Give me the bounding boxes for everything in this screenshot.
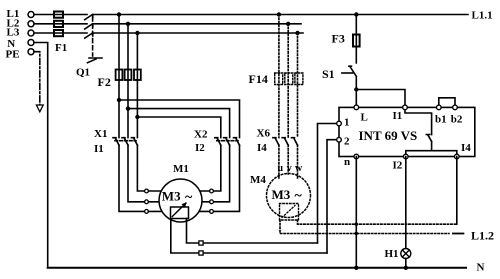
fuse F2 pole 3 [134, 70, 141, 81]
relay internal contact blade [426, 135, 431, 142]
svg-text:M3: M3 [272, 187, 291, 202]
wire X2 pole1 down to motor row1 right [213, 145, 221, 191]
wire X2 pole2 down to motor row2 right [213, 145, 229, 202]
node junction L2 tap dotted branch [286, 22, 290, 26]
sensor PTC box motor2 dotted [280, 204, 299, 221]
node junction branch B to X2 [126, 106, 130, 110]
relay internal wire contact to I2/I4 [406, 142, 457, 157]
svg-text:L1.2: L1.2 [471, 229, 494, 243]
wire L3 from terminal to Q1 [34, 32, 87, 34]
motor M4 circle dotted [267, 174, 311, 218]
relay internal wire I1 to contact [405, 107, 432, 134]
terminal circle PE [28, 49, 34, 55]
wire L3 after Q1 [93, 32, 303, 34]
wire L1 bus after Q1 to right [93, 14, 468, 16]
ground PE arrow [36, 105, 43, 112]
wire dotted v to motor2 [287, 145, 289, 174]
switch Q1 actuator [88, 58, 103, 63]
motor M1 terminal right row3 [210, 210, 214, 214]
svg-text:v: v [287, 163, 292, 174]
wire X2 pole3 down to motor row3 right [213, 145, 239, 211]
wire lamp to N bus [405, 259, 407, 268]
wire branch B to X2 column [128, 109, 230, 138]
switch Q1 linkage dashed [92, 17, 94, 56]
node junction L1/phase A drop [117, 12, 121, 16]
wire X1 pole2 down to motor row2 [128, 145, 145, 202]
motor M1 terminal left row2 [145, 200, 149, 204]
fuse F3 [353, 35, 360, 47]
fuse F14 pole 2 dotted [285, 73, 293, 85]
svg-text:X1: X1 [94, 128, 107, 140]
contactor X1 pole 3 [131, 138, 137, 146]
wire dotted u to motor2 [278, 145, 280, 178]
svg-text:M3: M3 [162, 189, 181, 204]
svg-text:PE: PE [6, 48, 20, 60]
terminal L on box [354, 105, 359, 110]
svg-text:I2: I2 [393, 159, 403, 171]
terminal I1 on box [403, 105, 408, 110]
svg-text:I1: I1 [393, 110, 403, 122]
wire sensor lead left down [171, 219, 327, 254]
motor M1 terminal left row1 [145, 189, 149, 193]
svg-text:H1: H1 [385, 248, 399, 260]
svg-text:u: u [278, 163, 284, 174]
sensor junction square upper [199, 241, 203, 245]
contactor X1 linkage [115, 140, 136, 142]
wire branch C to X2 column [137, 117, 220, 138]
wire dotted phase w down to K6 [297, 33, 299, 138]
svg-text:INT 69 VS: INT 69 VS [359, 128, 418, 143]
svg-text:F2: F2 [98, 75, 111, 89]
terminal n on box [354, 154, 359, 159]
node crossing dot n/sensor2 upper [355, 223, 358, 226]
wire sensor to terminal 1 [318, 124, 337, 244]
svg-text:~: ~ [295, 189, 303, 204]
wire S1 to node [355, 77, 357, 90]
node junction lamp on N bus [404, 266, 408, 270]
fuse F2 pole 2 [125, 70, 132, 81]
contactor X2 linkage [217, 140, 238, 142]
lamp H1 cross [402, 250, 409, 257]
svg-text:n: n [344, 156, 350, 168]
wire node to I1 terminal [356, 90, 405, 106]
sensor junction square lower [199, 251, 203, 255]
wire L1 from terminal to Q1 [34, 14, 87, 16]
terminal circle N [28, 40, 34, 46]
fuse F1 pole 3 [54, 30, 63, 36]
wire L2 after Q1 [93, 23, 301, 25]
switch Q1 pole 3 blade [85, 33, 93, 38]
switch Q1 pole 1 blade [85, 15, 93, 20]
fuse F2 pole 1 [116, 70, 123, 81]
svg-text:F14: F14 [249, 72, 268, 86]
terminal I4 on box [455, 154, 460, 159]
wire I4 down to dotted line [456, 157, 458, 225]
svg-text:N: N [477, 262, 485, 274]
terminal circle L3 [28, 30, 34, 36]
wire phase B vertical to X1 [127, 24, 129, 138]
svg-text:I4: I4 [461, 142, 471, 154]
terminal b2 on box [453, 105, 458, 110]
wire dotted phase v down to K6 [287, 24, 289, 138]
sensor arrow motor2 dotted [282, 206, 295, 218]
svg-text:Q1: Q1 [76, 67, 90, 79]
svg-text:M1: M1 [173, 163, 189, 175]
node junction L3 tap dotted branch [295, 31, 299, 35]
svg-text:X6: X6 [257, 127, 271, 139]
contactor K6 pole 3 dotted [292, 138, 298, 146]
node junction branch A to X2 [117, 98, 121, 102]
wire dotted phase u down to K6 [278, 15, 280, 138]
svg-text:b2: b2 [451, 113, 463, 125]
wire sensor lead right down [187, 219, 318, 244]
node junction L1 to F3 [354, 12, 358, 16]
relay module INT69VS box [339, 107, 475, 156]
terminal I2 on box [404, 154, 409, 159]
svg-text:b1: b1 [435, 113, 447, 125]
node junction n on N bus [354, 266, 358, 270]
wire n to neutral bus [355, 157, 357, 268]
wire dotted sensor2 right lead to I4 [298, 220, 457, 224]
svg-text:L3: L3 [7, 27, 20, 39]
sensor PTC arrow motor1 [172, 203, 186, 216]
terminal 1 on box [337, 121, 342, 126]
wire N bottom bus [48, 267, 466, 269]
contactor X2 pole 2 [224, 138, 230, 146]
wire dotted sensor2 left lead to L1.2 [280, 220, 449, 234]
wire PE dash-dot down [34, 52, 40, 105]
node junction branch C to X2 [135, 115, 139, 119]
svg-text:I2: I2 [195, 142, 205, 154]
node junction L1 tap dotted branch [277, 12, 281, 16]
node junction S1 output [354, 87, 358, 91]
wire L1 down to F3 [355, 15, 357, 63]
wire phase C vertical to X1 [136, 33, 138, 138]
wire branch A to X2 column [119, 100, 240, 138]
terminal 2 on box [337, 137, 342, 142]
node junction L3/phase C drop [135, 31, 139, 35]
fuse F1 pole 2 [54, 21, 63, 27]
svg-text:2: 2 [344, 135, 350, 147]
motor M1 terminal right row2 [210, 200, 214, 204]
jumper bridge b1-b2 [439, 98, 455, 108]
contactor K6 pole 2 dotted [282, 138, 288, 146]
svg-text:L: L [361, 112, 368, 124]
wire node to L terminal [355, 90, 357, 106]
wire motor right leads [199, 191, 210, 211]
contactor X2 pole 1 [215, 138, 221, 146]
motor M1 terminal right row1 [210, 189, 214, 193]
contactor K6 pole 1 dotted [273, 138, 279, 146]
terminal b1 on box [437, 105, 442, 110]
motor M1 terminal left row3 [145, 210, 149, 214]
terminal circle L2 [28, 21, 34, 27]
wire motor left leads [148, 191, 162, 211]
switch Q1 pole 2 blade [85, 24, 93, 29]
lamp H1 [401, 249, 411, 259]
node junction L2/phase B drop [126, 22, 130, 26]
sensor PTC box motor1 [171, 207, 189, 219]
terminal circle L1 [28, 12, 34, 18]
node crossing dot n/sensor2 lower [355, 232, 358, 235]
wire X1 pole1 down and to motor row3 [119, 145, 145, 211]
switch S1 blade [349, 66, 356, 76]
svg-text:I4: I4 [257, 142, 267, 154]
svg-text:M4: M4 [250, 174, 266, 186]
svg-text:1: 1 [344, 117, 350, 129]
wire phase A vertical to X1 [118, 15, 120, 138]
fuse F14 pole 3 dotted [295, 73, 303, 85]
svg-text:F1: F1 [55, 42, 67, 54]
contactor X2 pole 3 [234, 138, 240, 146]
wire N from terminal [34, 43, 48, 268]
contactor X1 pole 1 [113, 138, 119, 146]
wire L2 from terminal to Q1 [34, 23, 87, 25]
svg-text:I1: I1 [94, 143, 104, 155]
svg-text:L1.1: L1.1 [472, 10, 493, 22]
wire sensor to terminal 2 [327, 140, 337, 253]
wire I2 down to lamp [405, 157, 407, 249]
wire L1.2 dash [453, 233, 464, 235]
fuse F1 pole 1 [54, 12, 63, 18]
fuse F14 pole 1 dotted [275, 73, 283, 85]
wire dotted w to motor2 [297, 145, 299, 178]
motor M1 circle [159, 179, 202, 222]
contactor X1 pole 2 [122, 138, 128, 146]
svg-text:w: w [295, 163, 303, 174]
svg-text:X2: X2 [194, 129, 208, 141]
svg-text:F3: F3 [332, 32, 345, 46]
wire X1 pole3 down to motor row1 [137, 145, 144, 191]
svg-text:S1: S1 [322, 67, 335, 81]
switch S1 actuator [342, 72, 353, 74]
